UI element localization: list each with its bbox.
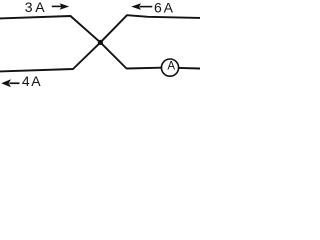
svg-text:6: 6 — [154, 0, 162, 15]
wire top-right branch (6 A) — [100, 15, 200, 42]
wire top-left branch (3 A) — [0, 16, 100, 42]
ammeter U1 circle — [161, 59, 178, 76]
wire bottom-right branch to ammeter — [100, 42, 161, 68]
wire bottom-left branch (4 A) — [0, 42, 100, 71]
svg-text:A: A — [167, 60, 175, 72]
svg-text:3: 3 — [25, 0, 33, 15]
arrow for 6 A (points left) — [131, 3, 152, 10]
svg-text:A: A — [35, 0, 45, 15]
arrow for 4 A (points left) — [1, 79, 19, 87]
svg-text:A: A — [164, 0, 174, 15]
wire ammeter to right edge — [179, 67, 200, 70]
svg-text:4: 4 — [22, 73, 30, 89]
node junction dot — [98, 40, 103, 45]
svg-text:A: A — [31, 73, 41, 89]
arrow for 3 A (points right) — [52, 3, 69, 10]
